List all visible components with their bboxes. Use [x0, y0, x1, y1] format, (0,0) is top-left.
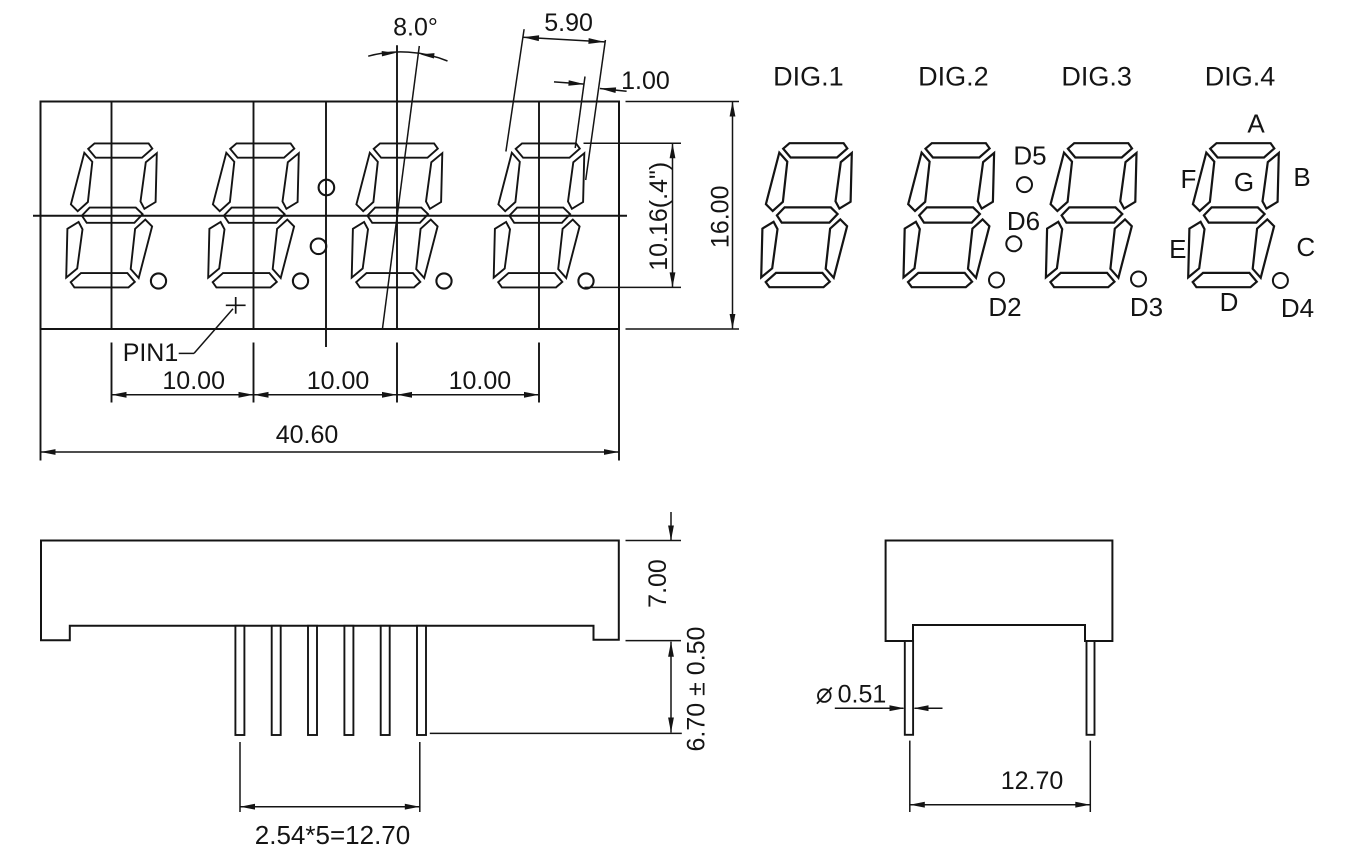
svg-text:E: E [1169, 234, 1186, 264]
svg-text:5.90: 5.90 [544, 9, 593, 37]
svg-text:PIN1: PIN1 [123, 339, 179, 367]
svg-text:G: G [1234, 167, 1254, 197]
svg-text:10.16(.4"): 10.16(.4") [645, 162, 673, 271]
svg-text:D2: D2 [988, 292, 1021, 322]
svg-text:A: A [1247, 109, 1265, 139]
svg-text:D6: D6 [1007, 206, 1040, 236]
svg-text:12.70: 12.70 [1001, 767, 1064, 795]
svg-text:DIG.2: DIG.2 [918, 61, 989, 91]
svg-text:0.51: 0.51 [838, 681, 887, 709]
svg-text:1.00: 1.00 [621, 67, 670, 95]
svg-text:10.00: 10.00 [307, 367, 370, 395]
svg-text:16.00: 16.00 [706, 186, 734, 249]
svg-text:7.00: 7.00 [644, 559, 672, 608]
svg-text:D3: D3 [1130, 292, 1163, 322]
svg-text:6.70 ± 0.50: 6.70 ± 0.50 [682, 627, 710, 752]
svg-text:8.0°: 8.0° [393, 14, 438, 42]
svg-text:B: B [1293, 162, 1310, 192]
svg-text:10.00: 10.00 [449, 367, 512, 395]
svg-text:DIG.3: DIG.3 [1061, 61, 1132, 91]
svg-text:2.54*5=12.70: 2.54*5=12.70 [255, 820, 410, 850]
svg-text:D4: D4 [1281, 293, 1314, 323]
svg-text:40.60: 40.60 [276, 421, 339, 449]
svg-text:D: D [1220, 287, 1239, 317]
svg-text:F: F [1181, 164, 1197, 194]
svg-text:C: C [1296, 232, 1315, 262]
svg-text:10.00: 10.00 [162, 367, 225, 395]
svg-text:DIG.1: DIG.1 [773, 61, 844, 91]
svg-text:DIG.4: DIG.4 [1205, 61, 1276, 91]
svg-text:D5: D5 [1013, 141, 1046, 171]
